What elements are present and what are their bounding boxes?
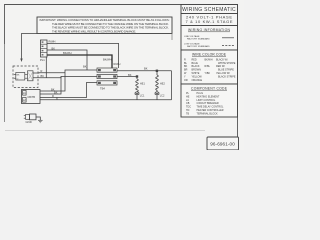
svg-text:HE2: HE2 xyxy=(160,82,165,85)
wire R/WH from PL1 pin1 xyxy=(47,43,119,68)
wire e2 CB to TB4 row2 xyxy=(40,77,97,95)
ground wire xyxy=(36,117,40,120)
svg-text:HE1: HE1 xyxy=(140,82,145,85)
svg-text:LC1: LC1 xyxy=(140,95,145,98)
wiring information box xyxy=(181,26,238,51)
svg-text:WIRING INFORMATION: WIRING INFORMATION xyxy=(188,28,231,32)
heating element HE1 xyxy=(136,78,146,92)
svg-text:TB4: TB4 xyxy=(100,86,105,90)
svg-text:BK: BK xyxy=(54,90,58,94)
transformer inside HC xyxy=(28,71,34,81)
part number box xyxy=(207,137,239,150)
svg-text:BK/WH: BK/WH xyxy=(103,58,112,62)
limit control LC2 xyxy=(155,92,165,100)
circuit breaker CB/TB box xyxy=(22,90,41,104)
svg-text:FACTORY STANDARD: FACTORY STANDARD xyxy=(187,45,210,48)
svg-text:BK: BK xyxy=(128,73,132,77)
svg-text:R: R xyxy=(56,97,58,101)
wire e1 CB to TB4 row1 xyxy=(40,70,97,91)
paper background xyxy=(0,0,244,150)
svg-text:TB: TB xyxy=(186,112,189,115)
svg-text:7 & 10 KW-1 STAGE: 7 & 10 KW-1 STAGE xyxy=(186,19,233,24)
right rail wire xyxy=(171,71,173,100)
IMPORTANT note box xyxy=(37,17,172,34)
annotation stub right corner xyxy=(171,34,173,41)
wire e3 CB to TB4 row3 xyxy=(40,83,97,98)
svg-text:LINE VOLTAGE: LINE VOLTAGE xyxy=(184,35,200,38)
svg-text:OR: OR xyxy=(184,79,188,82)
rating box xyxy=(181,14,238,26)
svg-text:R/BL: R/BL xyxy=(205,65,211,68)
terminal strip inside HC xyxy=(16,73,25,81)
svg-text:ORANGE: ORANGE xyxy=(192,79,203,82)
svg-text:BK: BK xyxy=(83,65,87,69)
wire e4 CB to element return xyxy=(40,99,172,101)
wire TB4 row2 to HE1 xyxy=(117,76,138,78)
heating element HE2 xyxy=(156,72,166,92)
svg-text:GND: GND xyxy=(26,120,32,124)
svg-text:BK: BK xyxy=(144,67,148,71)
component code box xyxy=(181,84,238,117)
svg-text:THE REVERSE WIRING WILL RESULT: THE REVERSE WIRING WILL RESULT IN CONTRO… xyxy=(52,29,136,33)
title box WIRING SCHEMATIC xyxy=(181,5,238,14)
svg-text:96-6961-00: 96-6961-00 xyxy=(210,142,235,147)
junction HE1 top xyxy=(136,75,138,77)
svg-text:LOW VOLTAGE: LOW VOLTAGE xyxy=(184,43,200,46)
svg-text:Y/BK: Y/BK xyxy=(205,72,211,75)
svg-text:LC2: LC2 xyxy=(160,95,165,98)
wire from PL1 bottom down to control box net xyxy=(45,57,47,78)
limit control LC1 xyxy=(135,92,145,100)
wire color code box xyxy=(181,50,238,84)
svg-text:WIRING SCHEMATIC: WIRING SCHEMATIC xyxy=(182,7,236,13)
svg-text:BK: BK xyxy=(52,46,56,50)
junction HE2 top xyxy=(156,70,158,72)
svg-text:BK/WH: BK/WH xyxy=(63,51,72,55)
svg-text:BK: BK xyxy=(41,74,45,78)
ground plug xyxy=(24,114,36,124)
wire BK from PL1 pin3 xyxy=(47,50,87,70)
wire TB4 row1 to HE2 and right rail xyxy=(117,70,172,72)
wire BK from HC xyxy=(33,77,61,78)
svg-text:PL1: PL1 xyxy=(40,58,45,62)
svg-text:R: R xyxy=(52,94,54,98)
svg-text:TERMINAL BLOCK: TERMINAL BLOCK xyxy=(197,112,219,115)
ground symbol xyxy=(38,120,43,123)
sheet border xyxy=(5,5,238,45)
heater control HC (dashed board) xyxy=(13,66,38,88)
svg-text:CB/TB: CB/TB xyxy=(27,95,35,99)
wire R from HC xyxy=(33,72,65,74)
terminal block TB4 xyxy=(97,68,117,90)
annotation arrow to control board xyxy=(22,34,38,61)
wire BK/WH heavy from PL1 pin4 xyxy=(47,55,112,68)
svg-text:FACTORY STANDARD: FACTORY STANDARD xyxy=(187,38,210,41)
svg-text:BK/WH: BK/WH xyxy=(205,58,213,61)
svg-text:BLACK STRIPE: BLACK STRIPE xyxy=(218,75,236,78)
svg-text:R/WH: R/WH xyxy=(114,62,121,66)
connector PL1 xyxy=(40,40,47,62)
svg-text:R/WH: R/WH xyxy=(49,40,56,44)
svg-text:R: R xyxy=(41,69,43,73)
